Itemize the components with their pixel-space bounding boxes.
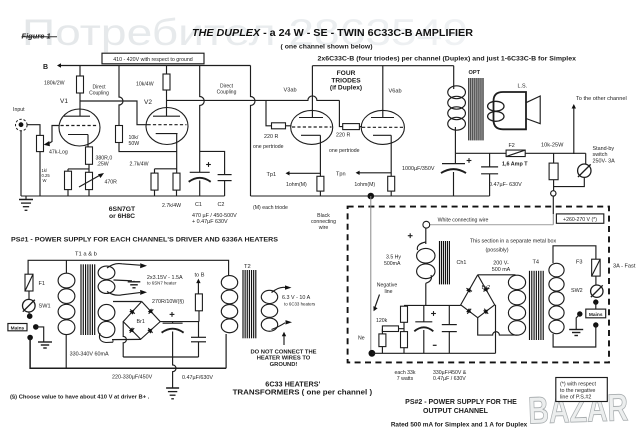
svg-text:TRIODES: TRIODES — [331, 77, 361, 84]
choke Ch1 winding — [417, 242, 435, 283]
wire OPT bottom junction — [454, 153, 456, 163]
F1 label — [39, 281, 46, 287]
C1 C2 value label — [192, 213, 237, 225]
earth wire PS1 — [36, 327, 52, 348]
watermark bazar logo — [527, 387, 628, 432]
wire bus to 10k50W — [119, 66, 123, 126]
wire V6 anode — [382, 66, 384, 118]
plus sign near choke — [408, 233, 413, 238]
V1 label — [60, 98, 68, 105]
svg-text:Negative: Negative — [377, 283, 398, 289]
F2 value label — [502, 161, 528, 167]
resistor 10k/50W — [116, 126, 123, 143]
wire V1 coupling to V2 grid — [80, 101, 148, 125]
input label — [13, 107, 25, 113]
svg-text:V1: V1 — [60, 98, 68, 105]
svg-text:250V- 3A: 250V- 3A — [593, 158, 616, 164]
T2 label — [244, 264, 251, 270]
wire V1 cathode down — [88, 135, 89, 147]
resistor 180k/2W — [77, 76, 84, 93]
svg-text:7 watts: 7 watts — [397, 376, 414, 382]
capacitor 0.47uF PS2 — [442, 325, 457, 332]
Ch1 label — [457, 260, 467, 266]
resistor 10k/4W — [163, 74, 170, 90]
PS1 neg rail — [123, 356, 198, 358]
ground wire PS1 output — [166, 357, 179, 399]
PS1 title — [11, 237, 278, 244]
cap 0.47 label — [489, 182, 522, 188]
wire Br2 top to T4 — [478, 274, 516, 276]
one pertriode label 2 — [329, 148, 360, 154]
Ch1 core — [440, 241, 450, 284]
wire 470R to rail — [88, 190, 90, 196]
svg-text:500 mA: 500 mA — [492, 267, 511, 273]
OPT core — [469, 78, 483, 140]
resistor 1k 0.25W — [65, 171, 72, 189]
resistor R 180k/2W label — [44, 81, 65, 87]
capacitor 330uF plus — [431, 311, 436, 316]
svg-text:10k/4W: 10k/4W — [136, 81, 154, 87]
input jack — [15, 119, 27, 131]
svg-text:one pertriode: one pertriode — [329, 148, 360, 154]
resistor 33k c — [379, 334, 386, 347]
V6ab label — [389, 88, 402, 94]
supply line wire — [455, 153, 585, 164]
svg-text:50W: 50W — [129, 141, 140, 147]
svg-text:1,6 Amp T: 1,6 Amp T — [502, 161, 528, 167]
wire 33k node — [382, 322, 404, 331]
resistor 10k/4W label — [136, 81, 154, 87]
Br2 label — [482, 285, 491, 291]
svg-text:6.3 V - 10 A: 6.3 V - 10 A — [282, 295, 311, 301]
white connecting wire — [430, 214, 554, 225]
svg-text:2.7k/4W: 2.7k/4W — [130, 162, 149, 168]
tube type label — [109, 206, 136, 220]
Ne label — [358, 335, 365, 341]
T1 heater winding — [98, 266, 115, 293]
svg-text:220 R: 220 R — [264, 134, 278, 140]
V2 label — [144, 99, 152, 106]
svg-text:PS#1 - POWER SUPPLY FOR EACH C: PS#1 - POWER SUPPLY FOR EACH CHANNEL'S D… — [11, 237, 278, 244]
wire 10k50W to cathode node — [119, 143, 177, 152]
svg-text:HEATER WIRES TO: HEATER WIRES TO — [257, 356, 311, 362]
svg-text:T4: T4 — [533, 260, 540, 266]
svg-text:Rated 500 mA for Simplex and 1: Rated 500 mA for Simplex and 1 A for Dup… — [391, 422, 528, 429]
svg-text:TRANSFORMERS ( one per channel: TRANSFORMERS ( one per channel ) — [233, 388, 373, 397]
220-330uF label — [112, 375, 153, 381]
svg-text:Tpn: Tpn — [336, 171, 346, 177]
svg-text:F1: F1 — [39, 281, 46, 287]
resistor 33k a — [401, 306, 408, 322]
PS1 0.47uF label — [182, 375, 213, 381]
svg-text:GROUND!: GROUND! — [270, 362, 298, 368]
svg-text:470 µF / 450-500V: 470 µF / 450-500V — [192, 213, 237, 219]
wires 33k to Ne rail — [382, 347, 404, 354]
C2 label — [218, 202, 225, 208]
svg-text:DO NOT CONNECT THE: DO NOT CONNECT THE — [250, 349, 316, 355]
T2 sec bottom arrow — [272, 320, 293, 329]
wire 220R to V6 grid — [359, 126, 362, 128]
terminal circle upper — [551, 191, 556, 196]
svg-text:OPT: OPT — [469, 70, 481, 76]
F2 label — [509, 143, 515, 149]
pot 47k-Log label — [49, 149, 68, 155]
SW1 label — [39, 304, 51, 310]
resistor 2.7k/4W a label — [130, 162, 149, 168]
capacitor C2 — [218, 175, 232, 181]
T4 label — [533, 260, 540, 266]
wire grid drop V6 — [339, 126, 342, 128]
resistor 10k-25W — [549, 163, 558, 180]
anode top wire — [312, 66, 453, 118]
wire 220R to V3 grid — [286, 125, 292, 127]
svg-text:2x6C33C-B (four triodes) per c: 2x6C33C-B (four triodes) per channel (Du… — [318, 56, 577, 63]
wire Br2 right to Ne — [494, 305, 497, 354]
T4 core — [530, 271, 544, 340]
wire 1ohm V6 to rail — [390, 191, 392, 196]
respect note box — [556, 378, 608, 402]
svg-text:W: W — [43, 178, 47, 183]
svg-text:(§) Choose value to have about: (§) Choose value to have about 410 V at … — [10, 394, 150, 400]
svg-text:(if Duplex): (if Duplex) — [330, 85, 362, 92]
metal box label — [470, 239, 557, 254]
wire 220-330uF — [172, 322, 174, 357]
svg-text:470R: 470R — [105, 180, 118, 186]
OPT secondary winding — [0, 0, 1, 1]
wire 0.47 PS2 — [448, 305, 450, 353]
wire grid tick V3 — [266, 100, 272, 125]
Tp1 arrow — [286, 171, 321, 175]
svg-text:Mains: Mains — [589, 312, 603, 318]
each 33k label — [394, 370, 415, 382]
wire HV to Br1 top — [113, 301, 142, 303]
svg-text:1000µF/350V: 1000µF/350V — [402, 166, 435, 172]
svg-text:line: line — [384, 289, 392, 295]
one pertriode label 1 — [253, 144, 284, 150]
Ne rail — [372, 352, 496, 354]
220R label 2 — [336, 132, 350, 138]
svg-text:1ohm(M): 1ohm(M) — [354, 182, 375, 188]
svg-text:0.47µF- 630V: 0.47µF- 630V — [489, 182, 522, 188]
wire HV to Br1 bottom — [112, 338, 141, 340]
wire SW1 dot — [28, 312, 31, 316]
C1 label — [195, 202, 202, 208]
6C33 heaters label — [233, 379, 373, 396]
mains earth dot PS2 — [577, 311, 582, 316]
wire terminal down — [552, 196, 554, 214]
svg-text:180k/2W: 180k/2W — [44, 81, 65, 87]
svg-text:L.S.: L.S. — [518, 83, 528, 89]
svg-text:T2: T2 — [244, 264, 251, 270]
F3 label — [576, 260, 583, 266]
capacitor C1 plus — [206, 162, 211, 167]
figure caption — [22, 32, 58, 41]
svg-text:one pertriode: one pertriode — [253, 144, 284, 150]
PS2 cap values label — [433, 370, 467, 382]
svg-text:F2: F2 — [509, 143, 515, 149]
subtitle — [281, 44, 373, 51]
svg-text:F3: F3 — [576, 260, 583, 266]
svg-text:330-340V 60mA: 330-340V 60mA — [70, 351, 109, 357]
mains box PS1 — [8, 324, 27, 332]
triode V1 — [59, 109, 100, 146]
wires 2.7k to rail — [155, 190, 177, 196]
6.3V label — [282, 295, 316, 307]
capacitor 220-330uF — [162, 323, 184, 333]
wire V2 anode coupling — [167, 96, 343, 127]
330-340V label — [70, 351, 109, 357]
negative line label — [377, 283, 398, 295]
to other channel label — [576, 96, 627, 102]
wire 10k4W to V2 anode — [166, 90, 168, 116]
standby switch SW — [578, 164, 591, 177]
svg-text:to B: to B — [195, 273, 205, 279]
svg-text:0.47µF / 630V: 0.47µF / 630V — [433, 376, 466, 382]
resistor 380R label — [96, 156, 113, 168]
wire F3 to SW2 — [595, 276, 597, 285]
svg-text:220 R: 220 R — [336, 132, 350, 138]
svg-text:Br2: Br2 — [482, 285, 491, 291]
mains lower dot PS2 — [593, 322, 598, 327]
bridge Br1 — [123, 302, 160, 340]
svg-text:220-330µF/450V: 220-330µF/450V — [112, 375, 153, 381]
Ne junction dot — [369, 350, 376, 357]
OPT primary winding — [448, 66, 466, 154]
wire C1 to C2 jumper — [200, 151, 225, 174]
T4 primary winding — [549, 263, 564, 333]
wire 0.47uF to rail — [489, 174, 491, 196]
black wire label — [311, 213, 336, 231]
svg-text:( one channel shown below): ( one channel shown below) — [281, 44, 373, 51]
120k label — [376, 318, 388, 324]
resistor 1ohm V3 — [317, 176, 324, 191]
do not connect label — [250, 349, 316, 368]
triode V2 — [146, 108, 188, 145]
wire cathode node — [68, 169, 89, 171]
wire Br2 bottom to T4 — [478, 318, 517, 335]
PS2 metal box dashed outline — [348, 207, 609, 363]
svg-text:SW1: SW1 — [39, 304, 51, 310]
svg-text:500mA: 500mA — [384, 261, 401, 267]
wire T4 primary top — [553, 246, 596, 263]
svg-text:White connecting wire: White connecting wire — [438, 217, 489, 223]
svg-text:410 - 420V with respect to gro: 410 - 420V with respect to ground — [113, 57, 193, 63]
direct coupling label 2 — [217, 83, 237, 95]
svg-text:3A - Fast: 3A - Fast — [613, 263, 636, 269]
heater winding bottom arrow — [107, 290, 147, 295]
T4 secondary winding — [508, 275, 525, 335]
wire C2 to rail — [224, 181, 226, 196]
svg-text:6SN7GT: 6SN7GT — [109, 206, 136, 213]
svg-text:Mains: Mains — [11, 326, 25, 332]
wire F1 to SW1 — [28, 291, 30, 299]
resistor 33k b — [382, 326, 398, 332]
wire SW2 to mains — [595, 302, 597, 309]
svg-text:Coupling: Coupling — [217, 89, 237, 95]
mains neutral wire — [30, 334, 226, 368]
loudspeaker — [488, 92, 541, 129]
T2 core — [243, 270, 256, 338]
mains box PS2 — [586, 309, 606, 318]
positive rail PS2 — [404, 304, 461, 306]
resistor 10k/50W label — [129, 135, 140, 147]
svg-text:Coupling: Coupling — [89, 91, 109, 97]
svg-text:SW2: SW2 — [571, 288, 583, 294]
node B label — [43, 64, 48, 71]
220R label 1 — [264, 134, 278, 140]
svg-text:47k-Log: 47k-Log — [49, 149, 68, 155]
capacitor 1000uF plus — [467, 158, 472, 163]
fuse F2 — [506, 150, 525, 157]
PS1 top wire — [28, 260, 229, 275]
resistor 470R label — [105, 180, 118, 186]
mains earth dot PS1 — [33, 324, 39, 330]
resistor 1ohm V6 — [388, 176, 395, 191]
wire pot to rail — [39, 152, 41, 196]
wire Br1 right — [160, 311, 199, 322]
each triode note — [253, 205, 288, 211]
do not connect arrow — [282, 332, 286, 345]
capacitor C1 470uF — [189, 172, 211, 182]
1ohm label 2 — [354, 182, 375, 188]
T2 sec top arrow — [272, 285, 292, 292]
svg-text:Tp1: Tp1 — [267, 172, 277, 178]
svg-text:(possibly): (possibly) — [485, 248, 508, 254]
svg-text:(M) each triode: (M) each triode — [253, 205, 288, 211]
triode V6ab — [361, 110, 404, 144]
wire V3 cathode to 1ohm — [319, 135, 321, 176]
wire 10k to terminal — [553, 180, 555, 191]
wire V2 cathode down — [176, 134, 178, 174]
3A fast label — [613, 263, 636, 269]
OPT label — [469, 70, 481, 76]
resistor 2.7k/4W b label — [162, 203, 181, 209]
svg-text:V6ab: V6ab — [389, 88, 402, 94]
heater winding top arrow — [107, 263, 147, 268]
wire input to pot — [27, 125, 40, 136]
capacitor 1000uF/350V — [441, 164, 466, 174]
heater center tap — [114, 280, 141, 288]
junction dot black wire — [368, 193, 375, 200]
black connecting wire — [370, 196, 372, 353]
svg-text:to 6SN7 heater: to 6SN7 heater — [147, 280, 177, 285]
resistor 220R grid V3 — [272, 123, 286, 129]
wire to 10k resistor — [553, 153, 555, 163]
SW2 terminal dot — [593, 299, 598, 304]
wire switch bottom — [554, 177, 585, 186]
direct coupling label 1 — [89, 85, 109, 97]
wire 1k to rail — [67, 190, 69, 196]
PS2 title — [405, 399, 517, 415]
capacitor 330uF/450V — [414, 322, 433, 332]
wire 1ohm V3 to rail — [319, 191, 321, 196]
subtitle line 2 — [318, 56, 577, 63]
T1 HV winding — [98, 304, 115, 342]
wire 380R to node — [88, 164, 90, 172]
wire V6 cathode to 1ohm — [390, 135, 392, 176]
svg-text:(*) with respect: (*) with respect — [560, 381, 596, 387]
voltage box 260-270 — [556, 214, 603, 223]
B+ bus wire with left arrow — [57, 63, 251, 67]
fuse F3 — [592, 259, 601, 276]
svg-text:10k-25W: 10k-25W — [541, 142, 564, 148]
T1 core — [81, 264, 95, 335]
svg-text:line of P.S.#2: line of P.S.#2 — [560, 395, 591, 401]
bridge Br2 — [461, 275, 495, 318]
svg-text:wire: wire — [319, 225, 329, 231]
svg-text:2.7k/4W: 2.7k/4W — [162, 203, 181, 209]
white wire terminal circle — [423, 221, 430, 228]
wire bus to 10k4W — [166, 66, 168, 75]
wire Br1 left down — [123, 322, 126, 357]
1ohm label 1 — [286, 182, 307, 188]
Tpn label — [336, 171, 346, 177]
triode V3ab — [291, 110, 333, 144]
wire bus to C1 — [200, 66, 205, 173]
T1 label — [75, 251, 97, 257]
svg-text:1ohm(M): 1ohm(M) — [286, 182, 307, 188]
svg-text:0.47µF/630V: 0.47µF/630V — [182, 375, 213, 381]
LS label — [518, 83, 528, 89]
270R label — [152, 299, 184, 305]
capacitor 220-330uF plus — [170, 312, 175, 317]
choke label — [384, 255, 401, 268]
T2 secondary winding — [261, 290, 277, 331]
svg-text:+260-270 V (*): +260-270 V (*) — [563, 217, 597, 223]
switch SW1 — [23, 299, 36, 312]
svg-text:Figure 1: Figure 1 — [22, 32, 51, 41]
mains neutral dot PS1 — [27, 335, 33, 341]
wire bus to 180k — [79, 66, 81, 77]
choose value note — [10, 394, 150, 400]
capacitor 0.47uF 630V — [481, 167, 498, 174]
Tpn arrow — [356, 171, 392, 175]
resistor 270R/10W — [195, 294, 202, 311]
svg-text:THE DUPLEX - a 24 W - SE - TWI: THE DUPLEX - a 24 W - SE - TWIN 6C33C-B … — [192, 27, 473, 39]
resistor 2.7k/4W a — [151, 173, 158, 190]
svg-text:to 6C33 heaters: to 6C33 heaters — [284, 302, 316, 307]
to B arrow — [196, 279, 200, 294]
wire input shield down — [20, 131, 22, 197]
negative line arrow — [373, 295, 379, 312]
SW2 label — [571, 288, 583, 294]
10k-25W label — [541, 142, 564, 148]
wire 33k b — [381, 329, 383, 334]
ground symbol driver — [19, 196, 33, 210]
svg-text:3.5 Hy: 3.5 Hy — [386, 255, 401, 261]
svg-text:+ 0.47µF 630V: + 0.47µF 630V — [192, 219, 228, 225]
wire mains to T4 bottom — [553, 325, 596, 347]
resistor 2.7k/4W b — [173, 173, 180, 190]
svg-text:or 6H8C: or 6H8C — [109, 213, 135, 220]
resistor 220R grid V6 — [343, 124, 360, 130]
V3ab label — [284, 88, 297, 94]
wire cathode resistors jumper — [155, 169, 177, 173]
resistor 380R 0.25W — [86, 147, 93, 164]
svg-text:PS#2 - POWER SUPPLY FOR THE: PS#2 - POWER SUPPLY FOR THE — [405, 399, 517, 406]
svg-text:Stand-by: Stand-by — [593, 146, 615, 152]
fuse F1 — [25, 274, 33, 291]
four triodes label — [330, 70, 362, 92]
wire choke to plus node — [425, 283, 427, 305]
svg-text:.25W: .25W — [97, 161, 109, 167]
title — [192, 27, 473, 39]
earth wire PS2 — [569, 314, 583, 336]
heater label — [147, 275, 183, 285]
Br1 label — [137, 319, 145, 325]
white wire label — [438, 217, 489, 223]
svg-text:200 V-: 200 V- — [493, 261, 509, 267]
